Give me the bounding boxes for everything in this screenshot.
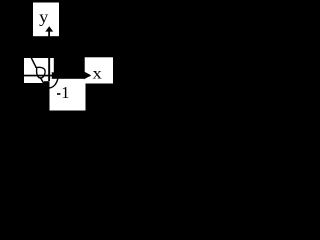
white patch: -1 label box [50,79,86,111]
x-axis line [24,75,90,77]
curve: small loop crossing x-axis [36,67,45,78]
white patch: x-label box [85,57,113,83]
y-axis line [48,31,50,81]
label -1 minus stroke [57,93,60,95]
svg-text:y: y [39,8,49,27]
curve: exit segment below axis [40,77,44,84]
svg-text:x: x [93,65,102,82]
white patch: axis strip lower [50,72,52,79]
white patch: y-label box [33,3,59,37]
white patch: plot box right part [44,58,50,81]
white patch: plot box left part [24,58,44,83]
y-axis arrowhead [45,26,53,31]
white patch: axis strip upper [50,58,54,72]
background [0,0,115,121]
svg-text:1: 1 [61,83,70,102]
curve: arc through -1 box corner [49,78,58,88]
curve: steep entry segment [31,58,36,68]
x-axis arrowhead [84,72,91,80]
